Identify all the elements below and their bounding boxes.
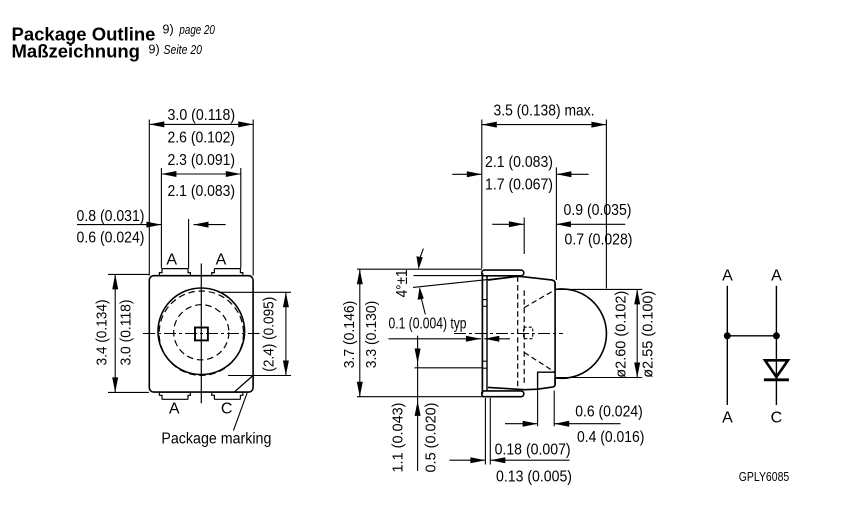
svg-text:A: A (771, 267, 782, 284)
dim 0.6/0.4 arrows (505, 421, 621, 427)
svg-text:9): 9) (149, 42, 160, 56)
wire anode left (726, 286, 728, 405)
center square chip (195, 328, 208, 341)
svg-text:0.4 (0.016): 0.4 (0.016) (577, 429, 645, 446)
svg-text:ø2.60 (0.102): ø2.60 (0.102) (613, 291, 630, 378)
svg-text:9): 9) (163, 23, 174, 37)
4 deg bottom arrow (418, 287, 426, 315)
extension line 2.1 right (555, 167, 557, 280)
svg-text:3.3 (0.130): 3.3 (0.130) (363, 301, 380, 369)
dim line 2.3/2.1 (161, 171, 240, 177)
extension line lead-right outer (240, 168, 242, 268)
left dim 3.7/3.3 bottom extension (357, 396, 488, 398)
extension 0.6 left (537, 389, 539, 426)
inner dashed circle (174, 305, 229, 360)
extension line side right (3.5) (605, 120, 607, 289)
package body top view (149, 276, 253, 392)
svg-text:1.1 (0.043): 1.1 (0.043) (389, 402, 406, 472)
svg-text:0.6 (0.024): 0.6 (0.024) (77, 230, 145, 247)
svg-text:page 20: page 20 (179, 23, 215, 37)
dim 2.1/1.7 arrows (452, 171, 588, 177)
extension lead thickness left (484, 398, 486, 465)
svg-text:A: A (722, 410, 733, 427)
lead bottom-left (159, 392, 190, 399)
hidden reflector cone bottom (524, 352, 555, 372)
side view centerline (454, 333, 563, 335)
svg-text:Package marking: Package marking (161, 431, 271, 448)
svg-text:A: A (166, 252, 177, 269)
dim line 3.7/3.3 (357, 269, 363, 397)
lead top-right (212, 269, 243, 276)
side view lead left inner edge / body left (486, 276, 488, 390)
svg-text:0.9 (0.035): 0.9 (0.035) (564, 202, 632, 219)
lens dashed circle (159, 291, 243, 375)
dim leader 0.8/0.6 left arrow (77, 222, 161, 228)
side view lead tab bottom (482, 391, 524, 397)
svg-text:A: A (169, 401, 180, 418)
dim line dia (634, 289, 640, 377)
svg-text:0.8 (0.031): 0.8 (0.031) (77, 208, 145, 225)
side view lead tab top (482, 270, 524, 276)
svg-text:3.0 (0.118): 3.0 (0.118) (168, 107, 236, 124)
diode D1 triangle (765, 360, 788, 377)
svg-text:0.6 (0.024): 0.6 (0.024) (575, 403, 643, 420)
svg-text:3.0 (0.118): 3.0 (0.118) (117, 299, 134, 365)
hidden dashed line 2 (523, 290, 525, 383)
svg-text:3.4 (0.134): 3.4 (0.134) (93, 299, 110, 365)
dome lens arc (555, 289, 606, 378)
svg-text:GPLY6085: GPLY6085 (739, 469, 790, 484)
body bottom edge side view (488, 378, 555, 390)
junction node right (773, 332, 780, 339)
body notch bottom right (538, 372, 556, 389)
dim 0.1 typ line and arrows (389, 336, 511, 342)
vertical centerline (200, 264, 202, 404)
extension line lead-left inner (188, 219, 190, 268)
svg-text:(2.4) (0.095): (2.4) (0.095) (260, 297, 277, 372)
4 deg top arrow (416, 249, 423, 270)
extension 1.1 top (415, 367, 483, 369)
4 deg sloped line (413, 276, 519, 287)
svg-text:Seite 20: Seite 20 (164, 43, 203, 57)
svg-text:Maßzeichnung: Maßzeichnung (12, 41, 140, 62)
svg-text:0.13 (0.005): 0.13 (0.005) (496, 468, 572, 485)
svg-text:3.7 (0.146): 3.7 (0.146) (341, 301, 358, 369)
right dim (2.4) extension lines (219, 292, 292, 375)
svg-text:2.1 (0.083): 2.1 (0.083) (168, 183, 236, 200)
lead bottom-right (212, 392, 243, 399)
dim line 3.5 (482, 122, 607, 128)
svg-text:A: A (722, 267, 733, 284)
dim 0.9/0.7 arrows (492, 221, 625, 227)
lens outer circle (158, 288, 245, 375)
extension lead thickness right (489, 398, 491, 465)
extension line side left (481, 120, 483, 269)
diode D1 cathode bar (764, 378, 789, 381)
svg-text:0.5 (0.020): 0.5 (0.020) (422, 402, 439, 472)
dim 0.8/0.6 right arrow (194, 222, 226, 228)
svg-text:2.6 (0.102): 2.6 (0.102) (168, 130, 236, 147)
svg-text:0.18 (0.007): 0.18 (0.007) (495, 442, 571, 459)
svg-text:2.1 (0.083): 2.1 (0.083) (485, 154, 553, 171)
lead top-left (159, 269, 190, 276)
svg-text:4°±1: 4°±1 (394, 269, 411, 297)
dome dia extension top (556, 288, 643, 290)
chamfer package marking corner (235, 376, 253, 392)
extension line body-left (148, 120, 150, 276)
4 deg reference line horizontal top (357, 268, 482, 270)
svg-text:A: A (216, 252, 227, 269)
dome dia extension bottom (556, 377, 643, 379)
package marking leader (233, 392, 247, 431)
left dim line 3.4/3.0 (112, 274, 118, 392)
body top edge side view (488, 276, 555, 289)
extension line lead-left outer (160, 168, 162, 268)
4 deg reference line horizontal second (414, 275, 484, 277)
extension line 0.9 left (523, 218, 525, 255)
svg-text:0.7 (0.028): 0.7 (0.028) (565, 231, 633, 248)
side view lead left outer edge (481, 273, 483, 394)
junction node left (724, 332, 731, 339)
svg-text:0.1 (0.004) typ: 0.1 (0.004) typ (389, 315, 467, 332)
title line 2 (12, 41, 203, 62)
hidden chip square (524, 327, 533, 339)
svg-text:C: C (221, 401, 233, 418)
dim 1.1/0.5 vertical line (415, 336, 421, 471)
hidden reflector cone top (524, 290, 555, 308)
body right edge (554, 283, 556, 385)
svg-text:C: C (771, 410, 783, 427)
extension 0.6 right (553, 391, 555, 427)
svg-text:ø2.55 (0.100): ø2.55 (0.100) (639, 291, 656, 378)
title line 1 (12, 23, 215, 45)
right dim line (2.4) (283, 292, 289, 375)
hidden dashed line 1 (517, 276, 519, 389)
svg-text:2.3 (0.091): 2.3 (0.091) (168, 152, 236, 169)
lead step ticks (483, 300, 487, 369)
dim line 3.0/2.6 (149, 121, 253, 127)
wire anode right (775, 286, 777, 405)
wire crossbar (727, 335, 776, 337)
svg-text:3.5 (0.138) max.: 3.5 (0.138) max. (494, 103, 595, 120)
dim 0.18/0.13 arrows (450, 457, 570, 463)
extension line body-right (252, 120, 254, 276)
svg-text:1.7 (0.067): 1.7 (0.067) (485, 177, 553, 194)
horizontal centerline dash-dot (143, 333, 260, 335)
left dim 3.4/3.0 extension lines (108, 274, 149, 392)
